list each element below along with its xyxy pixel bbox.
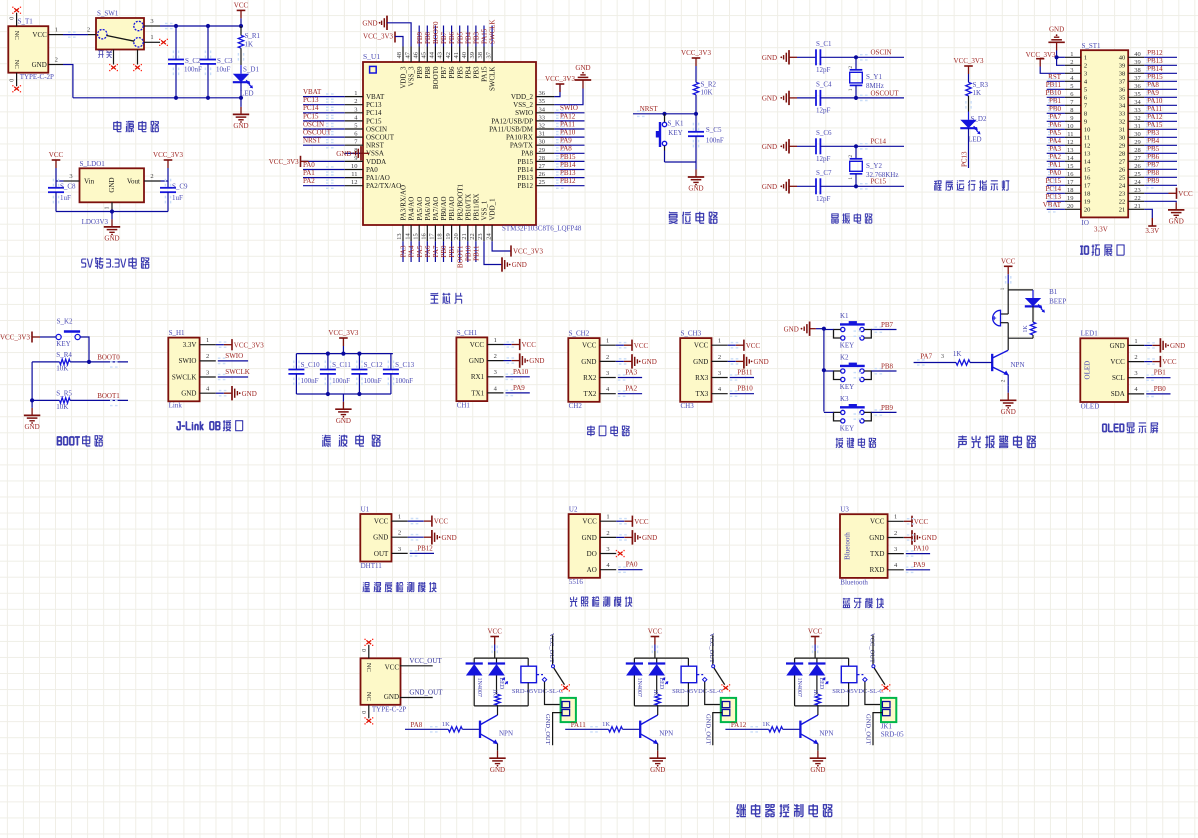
svg-text:12: 12 — [1084, 143, 1091, 150]
svg-text:1K: 1K — [762, 721, 770, 728]
svg-text:1K: 1K — [973, 89, 982, 97]
svg-text:34: 34 — [1134, 99, 1141, 106]
svg-text:9: 9 — [354, 155, 357, 162]
svg-text:VCC_3V3: VCC_3V3 — [234, 341, 264, 349]
svg-text:1: 1 — [718, 338, 721, 345]
svg-text:2: 2 — [398, 530, 401, 537]
svg-text:2: 2 — [606, 530, 609, 537]
svg-text:GND_OUT: GND_OUT — [544, 714, 551, 745]
svg-text:PA11: PA11 — [1147, 105, 1163, 113]
svg-text:PB6: PB6 — [448, 66, 456, 79]
svg-text:4: 4 — [718, 386, 722, 393]
svg-text:Link: Link — [169, 402, 183, 410]
svg-text:1: 1 — [1084, 55, 1087, 62]
svg-text:SWCLK: SWCLK — [172, 373, 197, 381]
svg-text:32: 32 — [1134, 115, 1141, 122]
svg-text:GND: GND — [1001, 408, 1016, 416]
svg-text:1: 1 — [150, 34, 153, 41]
svg-text:STM32F103C8T6_LQFP48: STM32F103C8T6_LQFP48 — [502, 225, 582, 233]
svg-text:4: 4 — [206, 386, 210, 393]
svg-text:LED: LED — [658, 678, 664, 690]
svg-text:LED: LED — [240, 90, 254, 98]
svg-text:PA2/TX/AO: PA2/TX/AO — [366, 182, 401, 190]
svg-text:SRD-05VDC-SL-C: SRD-05VDC-SL-C — [832, 688, 883, 695]
svg-text:1: 1 — [206, 337, 209, 344]
svg-text:VCC_3V3: VCC_3V3 — [0, 334, 30, 342]
svg-text:1K: 1K — [812, 689, 818, 697]
svg-text:RX1: RX1 — [471, 373, 485, 381]
svg-text:VCC_3V3: VCC_3V3 — [269, 158, 299, 166]
svg-text:PB15: PB15 — [517, 158, 533, 166]
svg-text:17: 17 — [1084, 183, 1091, 190]
svg-text:PB13: PB13 — [517, 174, 533, 182]
svg-text:PC14: PC14 — [1045, 185, 1061, 193]
svg-text:GND: GND — [922, 534, 937, 542]
svg-text:15: 15 — [412, 233, 419, 240]
svg-text:PB9: PB9 — [416, 66, 424, 79]
svg-text:2: 2 — [848, 155, 854, 158]
svg-text:PA8: PA8 — [521, 150, 533, 158]
svg-text:GND: GND — [762, 54, 777, 62]
svg-text:22: 22 — [469, 233, 476, 240]
svg-text:19: 19 — [445, 233, 452, 240]
svg-text:11: 11 — [1067, 131, 1073, 138]
svg-text:VCC: VCC — [694, 342, 709, 350]
svg-text:100nF: 100nF — [184, 66, 202, 74]
svg-text:PB5: PB5 — [456, 31, 464, 44]
svg-text:PB11: PB11 — [473, 245, 481, 261]
svg-text:RX2: RX2 — [583, 374, 597, 382]
svg-text:SWCLK: SWCLK — [489, 20, 497, 45]
svg-text:30: 30 — [1119, 135, 1126, 142]
svg-text:2: 2 — [1084, 63, 1087, 70]
svg-text:VCC: VCC — [234, 2, 249, 10]
svg-text:K1: K1 — [840, 312, 849, 320]
svg-text:VCC: VCC — [522, 341, 537, 349]
svg-text:20: 20 — [1067, 203, 1074, 210]
svg-text:2: 2 — [354, 98, 357, 105]
svg-text:PA15: PA15 — [481, 28, 489, 44]
svg-text:0: 0 — [362, 711, 368, 714]
svg-text:40: 40 — [461, 52, 468, 59]
svg-text:PA1: PA1 — [303, 169, 315, 177]
svg-text:PB12: PB12 — [560, 177, 576, 185]
svg-text:1: 1 — [1070, 51, 1073, 58]
svg-text:PC13: PC13 — [961, 151, 969, 167]
svg-text:VCC_OUT: VCC_OUT — [868, 633, 875, 663]
svg-text:14: 14 — [1067, 155, 1074, 162]
svg-text:22: 22 — [1119, 199, 1126, 206]
svg-text:PB6: PB6 — [448, 31, 456, 44]
svg-text:3: 3 — [606, 370, 609, 377]
svg-text:VCC: VCC — [582, 342, 597, 350]
svg-text:PA8: PA8 — [560, 145, 572, 153]
svg-text:GND: GND — [336, 417, 351, 425]
svg-text:PB8: PB8 — [1147, 169, 1160, 177]
svg-text:25: 25 — [1134, 171, 1141, 178]
svg-text:3: 3 — [941, 354, 944, 360]
svg-text:U2: U2 — [569, 506, 578, 514]
svg-text:PA2: PA2 — [303, 177, 315, 185]
svg-text:VCC_3V3: VCC_3V3 — [153, 151, 183, 159]
svg-text:5: 5 — [1070, 83, 1073, 90]
svg-text:17: 17 — [1067, 179, 1074, 186]
svg-text:PC15: PC15 — [303, 112, 319, 120]
svg-text:PC14: PC14 — [871, 138, 887, 146]
svg-text:PB1: PB1 — [448, 245, 456, 258]
svg-text:PA9: PA9 — [513, 384, 525, 392]
svg-text:PA3: PA3 — [400, 245, 408, 257]
svg-text:PB2/BOOT1: PB2/BOOT1 — [456, 183, 464, 220]
svg-text:PB3: PB3 — [473, 66, 481, 79]
svg-text:S_CH2: S_CH2 — [569, 330, 590, 338]
svg-text:14: 14 — [404, 233, 411, 240]
svg-text:28: 28 — [1134, 147, 1141, 154]
svg-text:BOOT0: BOOT0 — [432, 66, 440, 89]
svg-text:18: 18 — [1084, 191, 1091, 198]
svg-text:OLED: OLED — [1084, 361, 1092, 380]
svg-text:PA12: PA12 — [731, 721, 747, 729]
svg-text:VCC: VCC — [582, 518, 597, 526]
svg-text:GND: GND — [32, 61, 47, 69]
svg-text:26: 26 — [1134, 163, 1141, 170]
svg-text:VBAT: VBAT — [1043, 201, 1062, 209]
svg-text:SRD-05VDC-SL-C: SRD-05VDC-SL-C — [672, 688, 723, 695]
svg-text:PA3: PA3 — [625, 369, 637, 377]
svg-text:30: 30 — [539, 139, 546, 146]
svg-text:OLED: OLED — [1081, 402, 1100, 410]
svg-text:35: 35 — [539, 98, 546, 105]
svg-text:KEY: KEY — [56, 340, 70, 348]
svg-text:31: 31 — [1119, 127, 1126, 134]
svg-text:Vout: Vout — [127, 178, 140, 186]
svg-text:36: 36 — [1119, 87, 1126, 94]
svg-text:GND: GND — [442, 534, 457, 542]
svg-text:PC13: PC13 — [366, 101, 382, 109]
svg-text:23: 23 — [1119, 191, 1126, 198]
svg-text:PB12: PB12 — [517, 182, 533, 190]
svg-text:OUT: OUT — [374, 550, 389, 558]
svg-text:33: 33 — [1119, 111, 1126, 118]
svg-text:GND: GND — [693, 358, 708, 366]
svg-text:100nF: 100nF — [706, 137, 724, 145]
svg-text:13: 13 — [396, 233, 403, 240]
svg-text:PB13: PB13 — [560, 169, 576, 177]
svg-text:SWIO: SWIO — [560, 104, 578, 112]
svg-text:24: 24 — [485, 233, 492, 240]
svg-text:GND: GND — [575, 64, 590, 72]
svg-text:S_LDO1: S_LDO1 — [80, 160, 106, 168]
svg-text:35: 35 — [1134, 91, 1141, 98]
svg-text:NRST: NRST — [640, 105, 659, 113]
svg-text:S_U1: S_U1 — [363, 52, 380, 61]
svg-text:12pF: 12pF — [816, 155, 831, 163]
svg-text:PA7/AO: PA7/AO — [432, 197, 440, 221]
svg-text:24: 24 — [1119, 183, 1126, 190]
svg-text:1uF: 1uF — [172, 194, 183, 202]
svg-text:2: 2 — [87, 27, 90, 34]
svg-text:NPN: NPN — [819, 730, 833, 738]
svg-text:CH1: CH1 — [457, 401, 471, 409]
svg-text:PA0: PA0 — [366, 166, 378, 174]
svg-text:PB0: PB0 — [440, 245, 448, 258]
svg-text:37: 37 — [1134, 75, 1141, 82]
svg-text:NRST: NRST — [366, 142, 385, 150]
svg-text:S_C9: S_C9 — [172, 183, 188, 191]
svg-text:PA10: PA10 — [560, 129, 576, 137]
svg-text:RXD: RXD — [870, 566, 885, 574]
svg-text:PA10: PA10 — [913, 545, 929, 553]
svg-text:32: 32 — [539, 123, 546, 130]
svg-text:29: 29 — [1119, 143, 1126, 150]
svg-text:11: 11 — [1084, 135, 1090, 142]
svg-text:PB1: PB1 — [1154, 369, 1167, 377]
svg-text:3.3V: 3.3V — [1094, 226, 1108, 234]
svg-text:27: 27 — [1134, 155, 1141, 162]
svg-text:LED: LED — [968, 136, 982, 144]
svg-text:33: 33 — [1134, 107, 1141, 114]
svg-text:1K: 1K — [953, 350, 962, 358]
svg-text:2: 2 — [848, 66, 854, 69]
svg-text:13: 13 — [1067, 147, 1074, 154]
svg-text:VCC: VCC — [487, 628, 502, 636]
svg-text:TX2: TX2 — [584, 390, 597, 398]
svg-text:19: 19 — [1067, 195, 1074, 202]
svg-text:CH2: CH2 — [569, 402, 583, 410]
svg-text:S_ST1: S_ST1 — [1082, 42, 1102, 50]
svg-text:21: 21 — [461, 233, 468, 240]
svg-text:PB10: PB10 — [1045, 89, 1061, 97]
svg-text:KEY: KEY — [840, 342, 854, 350]
svg-text:1K: 1K — [652, 689, 658, 697]
svg-text:VCC_3V3: VCC_3V3 — [954, 57, 984, 65]
svg-text:S_C10: S_C10 — [301, 361, 321, 369]
svg-text:U1: U1 — [361, 505, 370, 513]
svg-text:PB12: PB12 — [1147, 49, 1163, 57]
svg-text:3: 3 — [206, 369, 209, 376]
svg-text:S_C7: S_C7 — [816, 169, 832, 177]
svg-text:25: 25 — [539, 179, 546, 186]
svg-text:PA5: PA5 — [416, 245, 424, 257]
svg-text:0: 0 — [10, 79, 16, 82]
svg-text:B1: B1 — [1049, 288, 1058, 296]
svg-text:1N4007: 1N4007 — [636, 678, 642, 697]
svg-text:1K: 1K — [492, 689, 498, 697]
svg-text:27: 27 — [1119, 159, 1126, 166]
svg-text:1K: 1K — [1023, 325, 1029, 333]
svg-text:S_C11: S_C11 — [332, 361, 351, 369]
svg-text:S_C1: S_C1 — [816, 40, 832, 48]
svg-text:10K: 10K — [701, 89, 713, 97]
svg-text:SDA: SDA — [1111, 390, 1125, 398]
svg-text:35: 35 — [1119, 95, 1126, 102]
svg-text:8: 8 — [1070, 107, 1073, 114]
svg-text:PB3: PB3 — [473, 31, 481, 44]
svg-text:4: 4 — [606, 562, 610, 569]
svg-text:S_C8: S_C8 — [60, 183, 76, 191]
svg-text:PA5: PA5 — [1049, 129, 1061, 137]
svg-text:PB7: PB7 — [1147, 161, 1160, 169]
svg-text:12pF: 12pF — [816, 66, 831, 74]
svg-text:2: 2 — [206, 353, 209, 360]
svg-text:PA0: PA0 — [626, 561, 638, 569]
svg-text:PA11: PA11 — [571, 721, 587, 729]
svg-text:NC: NC — [365, 663, 372, 672]
svg-text:PA12/USB/DP: PA12/USB/DP — [491, 117, 533, 125]
svg-text:PA6/AO: PA6/AO — [424, 197, 432, 221]
svg-text:PB1/AO: PB1/AO — [448, 196, 456, 220]
svg-text:GND: GND — [25, 423, 40, 431]
svg-text:PB4: PB4 — [464, 66, 472, 79]
svg-text:PA8: PA8 — [411, 721, 423, 729]
svg-text:PA9: PA9 — [913, 561, 925, 569]
svg-text:PB15: PB15 — [1147, 73, 1163, 81]
svg-text:GND: GND — [384, 693, 399, 701]
svg-text:18: 18 — [1067, 187, 1074, 194]
svg-text:39: 39 — [1119, 63, 1126, 70]
svg-text:13: 13 — [1084, 151, 1091, 158]
svg-text:S_CH3: S_CH3 — [681, 330, 702, 338]
svg-text:12pF: 12pF — [816, 195, 831, 203]
svg-text:GND: GND — [869, 534, 884, 542]
svg-text:VSS_1: VSS_1 — [481, 200, 489, 220]
svg-text:S_K2: S_K2 — [57, 318, 73, 326]
svg-text:37: 37 — [485, 51, 492, 58]
svg-text:PB10: PB10 — [737, 385, 753, 393]
svg-text:PB9: PB9 — [416, 31, 424, 44]
svg-text:GND: GND — [642, 534, 657, 542]
svg-text:10: 10 — [351, 163, 358, 170]
svg-text:S_Y1: S_Y1 — [866, 73, 882, 81]
svg-text:BEEP: BEEP — [1049, 298, 1066, 306]
svg-text:1: 1 — [1000, 287, 1006, 290]
svg-text:TYPE-C-2P: TYPE-C-2P — [20, 73, 54, 81]
svg-text:PC13: PC13 — [303, 96, 319, 104]
svg-text:PA15: PA15 — [481, 66, 489, 82]
svg-text:3.3V: 3.3V — [1145, 227, 1159, 235]
svg-text:3: 3 — [69, 173, 72, 180]
svg-text:2: 2 — [1001, 379, 1007, 382]
svg-text:10: 10 — [1084, 127, 1091, 134]
svg-text:SWCLK: SWCLK — [225, 368, 250, 376]
svg-text:LDO3V3: LDO3V3 — [82, 218, 109, 226]
svg-text:KEY: KEY — [840, 424, 854, 432]
svg-text:3: 3 — [494, 369, 497, 376]
svg-text:U3: U3 — [840, 506, 849, 514]
svg-text:40: 40 — [1119, 55, 1126, 62]
svg-text:19: 19 — [1084, 199, 1091, 206]
svg-text:10K: 10K — [56, 403, 68, 411]
svg-text:PB11/RX: PB11/RX — [473, 194, 481, 221]
svg-text:BOOT0: BOOT0 — [97, 353, 120, 361]
svg-text:PA10: PA10 — [513, 368, 529, 376]
svg-text:LED1: LED1 — [1081, 330, 1099, 338]
svg-text:2: 2 — [718, 354, 721, 361]
svg-text:2: 2 — [1134, 354, 1137, 361]
svg-text:TXD: TXD — [870, 550, 884, 558]
svg-text:VCC: VCC — [49, 151, 64, 159]
svg-text:PB6: PB6 — [1147, 153, 1160, 161]
svg-text:PA2: PA2 — [625, 385, 637, 393]
svg-text:PB10: PB10 — [464, 245, 472, 261]
svg-text:PA3/RX/AO: PA3/RX/AO — [400, 185, 408, 221]
svg-text:GND: GND — [1169, 218, 1184, 226]
svg-text:PA3: PA3 — [1049, 145, 1061, 153]
svg-text:GND: GND — [688, 185, 703, 193]
svg-text:42: 42 — [445, 52, 452, 59]
svg-text:1: 1 — [494, 337, 497, 344]
svg-text:1uF: 1uF — [60, 194, 71, 202]
svg-text:GND: GND — [1049, 26, 1064, 34]
svg-text:PC15: PC15 — [1045, 177, 1061, 185]
svg-text:PB9: PB9 — [1147, 177, 1160, 185]
svg-text:GND: GND — [642, 358, 657, 366]
svg-text:2: 2 — [606, 354, 609, 361]
svg-text:S_K1: S_K1 — [668, 120, 684, 128]
svg-text:S_R3: S_R3 — [973, 81, 989, 89]
svg-text:1N4007: 1N4007 — [796, 678, 802, 697]
svg-text:VCC_3V3: VCC_3V3 — [545, 75, 575, 83]
svg-text:VCC: VCC — [1110, 358, 1125, 366]
svg-text:5: 5 — [354, 123, 357, 130]
svg-text:23: 23 — [477, 233, 484, 240]
svg-text:JK1: JK1 — [881, 723, 893, 731]
svg-text:GND: GND — [762, 95, 777, 103]
svg-text:3: 3 — [606, 546, 609, 553]
svg-text:LED: LED — [498, 678, 504, 690]
svg-text:GND: GND — [581, 358, 596, 366]
svg-text:PA1: PA1 — [1049, 161, 1061, 169]
svg-text:NC: NC — [13, 31, 20, 40]
svg-text:SRD-05VDC-SL-C: SRD-05VDC-SL-C — [512, 688, 563, 695]
svg-text:2: 2 — [1070, 59, 1073, 66]
svg-text:4: 4 — [1134, 386, 1138, 393]
svg-text:PA6: PA6 — [1049, 121, 1061, 129]
svg-text:GND: GND — [104, 235, 119, 243]
svg-text:PA10: PA10 — [1147, 97, 1163, 105]
svg-text:NC: NC — [365, 692, 372, 701]
svg-text:VCC: VCC — [1162, 358, 1177, 366]
svg-text:VCC: VCC — [870, 518, 885, 526]
svg-text:17: 17 — [429, 233, 436, 240]
svg-text:PB8: PB8 — [424, 31, 432, 44]
svg-text:15: 15 — [1067, 163, 1074, 170]
svg-text:S_SW1: S_SW1 — [97, 10, 119, 18]
svg-text:NPN: NPN — [659, 730, 673, 738]
svg-text:VCC: VCC — [746, 342, 761, 350]
svg-text:PA7: PA7 — [1049, 113, 1061, 121]
svg-text:PA15: PA15 — [1147, 121, 1163, 129]
svg-text:34: 34 — [1119, 103, 1126, 110]
svg-text:PB10/TX: PB10/TX — [464, 194, 472, 221]
svg-text:S_H1: S_H1 — [169, 329, 185, 337]
svg-text:VCC: VCC — [32, 31, 47, 39]
svg-text:BOOT0: BOOT0 — [432, 21, 440, 44]
svg-text:16: 16 — [1084, 175, 1091, 182]
svg-text:LED: LED — [818, 678, 824, 690]
svg-text:K3: K3 — [840, 395, 849, 403]
svg-text:VCC: VCC — [374, 518, 389, 526]
svg-text:16: 16 — [1067, 171, 1074, 178]
svg-text:1: 1 — [848, 88, 854, 91]
svg-text:GND: GND — [529, 357, 544, 365]
svg-text:GND: GND — [108, 177, 116, 192]
svg-text:21: 21 — [1134, 203, 1141, 210]
svg-text:28: 28 — [1119, 151, 1126, 158]
svg-text:VSS_2: VSS_2 — [513, 101, 533, 109]
svg-text:NC: NC — [13, 60, 20, 69]
svg-text:4: 4 — [894, 562, 898, 569]
